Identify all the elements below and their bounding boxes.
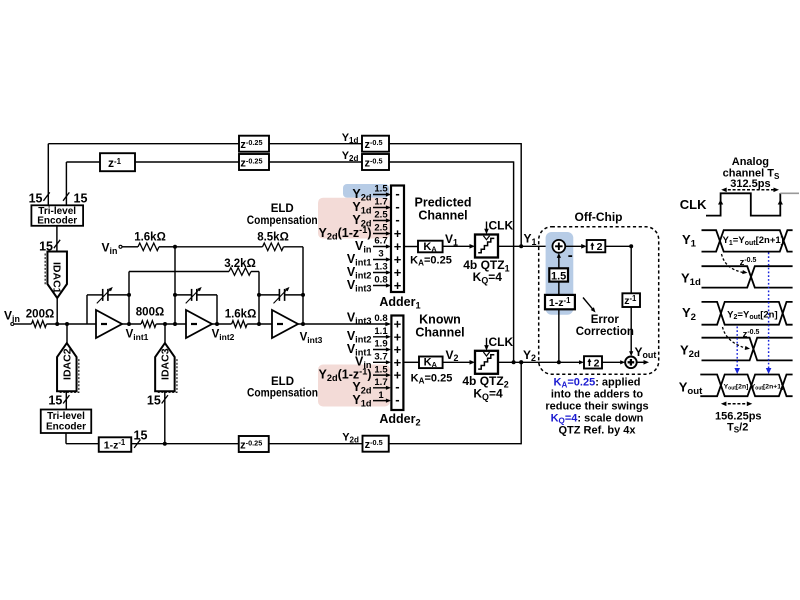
- wire: Y1 feedback vertical from Y1 node: [520, 143, 522, 246]
- svg-text:2.5: 2.5: [374, 223, 388, 234]
- delay z^-0.5 (top line): [362, 136, 389, 152]
- adder1 input 6.7: [373, 246, 389, 248]
- capacitor C2 (integrator 2): [175, 294, 192, 296]
- summer S1 (Y1 - correction): [552, 240, 565, 253]
- wire: 1-z^-1 to 1.5: [558, 282, 560, 295]
- svg-text:KQ=4: KQ=4: [473, 387, 503, 402]
- block 1-z^-1 (error correction): [545, 295, 575, 309]
- wire: Y2 feedback second line: [66, 161, 100, 163]
- dimension arrow 312.5ps: [723, 189, 777, 191]
- summer S2 (Yout): [602, 361, 622, 363]
- wire: adder2 to KA2: [403, 361, 419, 363]
- gain KA (known): [419, 357, 443, 369]
- adder1 box: [391, 186, 404, 293]
- bus slash 15 (wire2): [63, 192, 69, 200]
- svg-text:1: 1: [378, 390, 384, 401]
- delay z^-1 (off-chip): [622, 293, 640, 307]
- delay z^-0.5 (second line): [362, 154, 389, 170]
- wire: QTZ1 to off-chip, node Y1: [498, 245, 549, 247]
- IDAC2: [66, 324, 68, 343]
- delay z^-0.25 (second line): [239, 154, 269, 170]
- wire: Y2 tap up into 1-z^-1: [558, 309, 560, 362]
- svg-text:8.5kΩ: 8.5kΩ: [257, 231, 289, 243]
- svg-text:15: 15: [48, 394, 62, 408]
- svg-text:IDAC2: IDAC2: [61, 348, 73, 380]
- svg-text:-: -: [395, 212, 399, 227]
- svg-text:Compensation: Compensation: [247, 215, 318, 227]
- adder2 input 3.7: [373, 361, 389, 363]
- svg-text:KA=0.25: KA=0.25: [411, 372, 453, 385]
- gain KA (predicted): [418, 241, 443, 253]
- svg-text:IDAC1: IDAC1: [51, 262, 63, 294]
- adder2 input 1.1: [373, 336, 389, 338]
- wire: opamp3 output / Vint3 node to Adder2: [296, 323, 389, 325]
- svg-text:800Ω: 800Ω: [136, 306, 164, 318]
- upsampler 2x (top): [565, 245, 582, 247]
- svg-text:Predicted: Predicted: [415, 195, 472, 209]
- bus slash 15 (wire1): [43, 192, 49, 200]
- svg-text:Adder1: Adder1: [379, 295, 420, 311]
- blue mapping line Y2 to Yout[2n]: [736, 327, 738, 370]
- svg-text:ELD: ELD: [271, 203, 294, 215]
- svg-text:+: +: [394, 278, 402, 293]
- svg-text:1.6kΩ: 1.6kΩ: [134, 231, 166, 243]
- off-chip dashed boundary: [539, 227, 659, 375]
- wire: 1-z^-1 to junction, slash 15: [131, 443, 239, 445]
- node Vint1: [127, 322, 131, 326]
- adder1 input 1.3: [373, 272, 389, 274]
- wire: Y1 feedback top line: [48, 143, 239, 145]
- tri-level encoder (top): [31, 205, 83, 226]
- wire: Vin to R 200: [14, 323, 25, 325]
- delay arrow z^-0.5 (Y2 to Y2d): [723, 327, 747, 348]
- svg-text:CLK: CLK: [489, 219, 514, 233]
- upsampler 2x (bottom): [559, 361, 581, 363]
- svg-text:into the adders to: into the adders to: [551, 389, 644, 401]
- wire: QTZ2 to off-chip, node Y2: [498, 361, 559, 363]
- svg-text:2: 2: [594, 357, 600, 369]
- adder2 input 1: [373, 400, 389, 402]
- wire: bottom line to z^-0.5: [269, 443, 363, 445]
- highlight blue Y2d (adder1): [343, 184, 389, 198]
- svg-text:KA=0.25: KA=0.25: [410, 254, 452, 267]
- wire: opamp1 output to Vint1 node: [122, 323, 141, 325]
- wire: encoder2 to bottom line: [65, 433, 67, 444]
- wire: FF node to 8.5k: [175, 246, 263, 248]
- svg-text:1.3: 1.3: [374, 262, 387, 273]
- svg-text:2.5: 2.5: [374, 210, 388, 221]
- wire: opamp2 output to Vint2 node: [211, 323, 232, 325]
- quantizer 4b QTZ1: [475, 235, 498, 258]
- delay z^-0.5 (bottom line): [363, 436, 389, 452]
- svg-text:Off-Chip: Off-Chip: [575, 210, 623, 224]
- delay arrow z^-0.5 (Y1 to Y1d): [722, 254, 744, 273]
- svg-text:Correction: Correction: [576, 326, 634, 338]
- delay z^-0.25 (top line): [239, 136, 269, 152]
- adder2 input 1.5: [373, 374, 389, 376]
- svg-text:3: 3: [378, 249, 383, 260]
- svg-text:6.7: 6.7: [374, 236, 387, 247]
- resistor 8.5k Ohm: [263, 243, 284, 251]
- tri-level encoder (bottom): [41, 410, 92, 434]
- wire: bottom line to Y2 vertical: [389, 443, 521, 445]
- svg-text:ELD: ELD: [271, 376, 294, 388]
- highlight pink ELD terms (adder1): [318, 198, 390, 239]
- resistor 1.6k Ohm (feedforward): [138, 243, 159, 251]
- wire: IDAC1 to main line: [56, 298, 58, 324]
- wire: KA to QTZ1: [443, 245, 471, 247]
- svg-text:CLK: CLK: [680, 197, 707, 212]
- dimension arrow Ts/2: [723, 403, 750, 405]
- wire: 1.5 block up into summer S1: [558, 257, 560, 269]
- wire: up2a to z^-1: [605, 245, 631, 247]
- junction IDAC3 tap: [163, 442, 167, 446]
- gain block 1.5: [549, 268, 568, 281]
- adder2 box: [391, 316, 403, 411]
- blue mapping line Y1 to Yout[2n+1]: [768, 253, 770, 370]
- svg-text:Encoder: Encoder: [37, 216, 77, 227]
- svg-text:Channel: Channel: [418, 208, 467, 222]
- svg-text:Channel: Channel: [415, 326, 464, 340]
- wire: 8.5k down to Vint3 node: [302, 247, 304, 324]
- clock input CLK (QTZ2): [486, 338, 488, 346]
- delay z^-1 (second line): [100, 153, 135, 171]
- adder2 input 1.7: [373, 387, 389, 389]
- wire: adder1 to KA: [404, 246, 418, 248]
- svg-text:-: -: [568, 247, 573, 264]
- resistor 3.2k Ohm: [229, 268, 251, 276]
- output Yout arrow: [637, 361, 645, 363]
- annotation arrow error correction: [583, 298, 593, 310]
- svg-text:1.6kΩ: 1.6kΩ: [225, 308, 257, 320]
- svg-text:15: 15: [147, 394, 161, 408]
- IDAC1: [44, 254, 46, 286]
- svg-text:200Ω: 200Ω: [26, 308, 54, 320]
- wire: z^-1 down to summer S2: [630, 307, 632, 353]
- waveform CLK: [706, 193, 780, 215]
- svg-text:reduce their swings: reduce their swings: [545, 401, 648, 413]
- svg-text:15: 15: [134, 428, 148, 442]
- svg-text:15: 15: [74, 191, 88, 205]
- resistor 200 Ohm: [32, 321, 47, 328]
- svg-text:0.8: 0.8: [374, 275, 387, 286]
- wire: 1.6k to opamp3: [247, 323, 272, 325]
- node Vint2: [215, 322, 219, 326]
- svg-text:1.5: 1.5: [551, 270, 566, 282]
- clock input CLK (QTZ1): [486, 222, 488, 230]
- op-amp integrator 3: [272, 310, 298, 338]
- svg-text:-: -: [395, 392, 399, 407]
- adder1 input 0.8: [373, 285, 389, 287]
- op-amp integrator 2: [186, 310, 212, 338]
- junction IDAC2 on main line: [65, 322, 69, 326]
- svg-text:15: 15: [29, 191, 43, 205]
- svg-text:Analog: Analog: [732, 156, 769, 168]
- bus slash 15 (IDAC1 input): [54, 240, 60, 248]
- svg-text:312.5ps: 312.5ps: [730, 178, 770, 190]
- wire: encoder1 to line2: [65, 162, 67, 205]
- svg-text:2: 2: [597, 241, 603, 253]
- adder1 input 2.5: [373, 233, 389, 235]
- adder1 input 1.5: [373, 194, 389, 196]
- resistor 1.6k Ohm (main row): [232, 321, 248, 328]
- adder1 input 2.5: [373, 220, 389, 222]
- capacitor C1 (integrator 1): [86, 295, 88, 324]
- svg-text:1.1: 1.1: [374, 326, 388, 337]
- wire: 3.2k row: [129, 271, 229, 273]
- adder1 input 1.7: [373, 207, 389, 209]
- adder2 input 1.9: [373, 349, 389, 351]
- svg-text:1.9: 1.9: [374, 339, 387, 350]
- wire: Y2 feedback vertical to Y2 node: [513, 161, 515, 362]
- svg-text:1.7: 1.7: [374, 197, 387, 208]
- svg-text:3.2kΩ: 3.2kΩ: [224, 258, 256, 270]
- IDAC3: [157, 359, 177, 392]
- svg-text:1.7: 1.7: [374, 377, 387, 388]
- wire: Vin FF to 1.6k: [122, 246, 128, 248]
- svg-text:3.7: 3.7: [374, 352, 387, 363]
- quantizer 4b QTZ2: [475, 351, 498, 374]
- svg-text:1.5: 1.5: [374, 184, 388, 195]
- adder1 input 3: [373, 259, 389, 261]
- svg-text:KQ=4: KQ=4: [473, 270, 503, 285]
- highlight pink ELD terms (adder2): [318, 365, 390, 407]
- wire: KA2 to QTZ2: [443, 361, 471, 363]
- svg-text:Encoder: Encoder: [46, 421, 86, 432]
- svg-text:Known: Known: [419, 313, 461, 327]
- wire: junction up to IDAC3 with slash 15: [164, 391, 166, 443]
- delay z^-0.25 (bottom line): [239, 436, 269, 452]
- svg-text:QTZ Ref. by 4x: QTZ Ref. by 4x: [558, 425, 636, 437]
- svg-text:1.5: 1.5: [374, 364, 388, 375]
- wire: encoder1 to IDAC1: [56, 226, 58, 252]
- svg-text:Adder2: Adder2: [379, 412, 420, 428]
- junction FF node: [173, 245, 177, 249]
- svg-text:IDAC3: IDAC3: [160, 348, 172, 380]
- op-amp integrator 1: [96, 310, 122, 338]
- wire: encoder1 to line1: [47, 144, 49, 206]
- highlight blue error-correction blocks: [546, 232, 574, 315]
- wire: 800 Ohm to opamp2: [156, 323, 186, 325]
- svg-text:0.8: 0.8: [374, 313, 387, 324]
- resistor 800 Ohm: [141, 321, 156, 328]
- block 1-z^-1 (bottom left): [99, 437, 132, 452]
- wire: IDAC2 to encoder2 with slash 15: [65, 391, 67, 409]
- svg-text:CLK: CLK: [489, 335, 514, 349]
- svg-text:4b QTZ1: 4b QTZ1: [463, 258, 509, 273]
- svg-text:Compensation: Compensation: [247, 387, 318, 399]
- capacitor C3 (integrator 3): [259, 294, 279, 296]
- svg-text:Error: Error: [591, 314, 620, 326]
